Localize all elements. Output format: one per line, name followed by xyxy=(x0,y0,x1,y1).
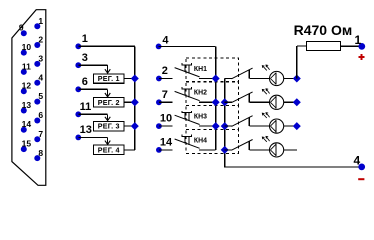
svg-text:1: 1 xyxy=(82,33,88,45)
svg-text:7: 7 xyxy=(162,89,168,101)
svg-text:4: 4 xyxy=(354,154,361,168)
svg-text:3: 3 xyxy=(38,54,43,64)
svg-text:6: 6 xyxy=(82,76,88,88)
svg-text:КН1: КН1 xyxy=(194,66,207,73)
svg-text:1: 1 xyxy=(354,33,361,47)
svg-text:2: 2 xyxy=(38,35,43,45)
svg-text:КН4: КН4 xyxy=(194,137,207,144)
svg-text:7: 7 xyxy=(38,129,43,139)
svg-text:14: 14 xyxy=(160,137,173,149)
svg-text:1: 1 xyxy=(38,16,43,26)
svg-text:13: 13 xyxy=(80,124,92,136)
svg-text:6: 6 xyxy=(38,110,43,120)
svg-text:5: 5 xyxy=(38,91,43,101)
svg-text:4: 4 xyxy=(38,72,43,82)
svg-text:РЕГ. 4: РЕГ. 4 xyxy=(98,145,120,154)
svg-text:12: 12 xyxy=(22,81,32,91)
svg-text:РЕГ. 1: РЕГ. 1 xyxy=(98,74,120,83)
svg-text:КН3: КН3 xyxy=(194,114,207,121)
svg-text:4: 4 xyxy=(162,34,169,46)
svg-text:11: 11 xyxy=(80,101,92,113)
svg-text:8: 8 xyxy=(38,148,43,158)
svg-text:15: 15 xyxy=(22,139,32,149)
svg-text:КН2: КН2 xyxy=(194,90,207,97)
svg-text:3: 3 xyxy=(82,52,88,64)
svg-text:9: 9 xyxy=(19,23,24,33)
svg-text:13: 13 xyxy=(22,100,32,110)
svg-text:R470 Ом: R470 Ом xyxy=(294,22,353,38)
svg-text:РЕГ. 3: РЕГ. 3 xyxy=(98,122,120,131)
svg-text:10: 10 xyxy=(22,42,32,52)
svg-text:10: 10 xyxy=(160,113,172,125)
svg-text:2: 2 xyxy=(162,65,168,77)
svg-text:11: 11 xyxy=(22,61,31,71)
svg-text:14: 14 xyxy=(22,119,32,129)
svg-text:РЕГ. 2: РЕГ. 2 xyxy=(98,98,120,107)
